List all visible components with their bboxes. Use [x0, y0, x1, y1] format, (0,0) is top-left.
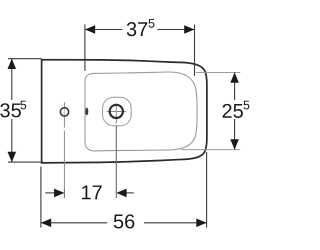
dim 35.5 label	[0, 103, 21, 117]
bidet outer outline	[42, 60, 207, 163]
dim 35.5 arrow up	[8, 59, 17, 69]
overflow slot	[85, 108, 88, 116]
dim 56 extension line left	[40, 167, 42, 228]
dim 56 arrow right	[196, 219, 206, 228]
dim 56 label	[114, 214, 135, 228]
dim 56 arrow left	[41, 219, 51, 228]
dim 56 extension line right	[206, 152, 208, 228]
dim 35.5 arrow down	[8, 152, 17, 162]
dim 25.5 arrow down	[230, 139, 239, 149]
drain hole	[110, 105, 123, 118]
dim 37.5 label	[127, 22, 147, 36]
dim 25.5 extension line bottom	[182, 149, 241, 151]
dim 37.5 arrow right	[184, 25, 194, 34]
dim 17 line with outside arrows	[45, 192, 134, 194]
tap hole	[60, 108, 68, 116]
drain centerline	[115, 126, 117, 198]
dim 35.5 line	[11, 59, 13, 162]
dim 17 arrow left	[54, 189, 64, 198]
dim 25.5 line	[234, 73, 236, 150]
dim 25.5 extension line top	[196, 72, 240, 74]
dim 35.5 extension line bottom	[8, 161, 42, 163]
dim 37.5 arrow left	[85, 25, 95, 34]
tap hole centerline	[63, 102, 65, 189]
dim 37.5 line	[85, 29, 195, 31]
dim 35.5 extension line top	[8, 58, 42, 60]
dim 17 label	[82, 185, 102, 199]
dim 37.5 extension line left	[84, 25, 86, 72]
drain trim plate	[103, 97, 132, 126]
dim 25.5 arrow up	[230, 73, 239, 83]
tap centerline extension below	[63, 189, 65, 198]
bidet inner bowl rim	[85, 72, 197, 151]
dim 37.5 extension line right	[194, 25, 196, 77]
dim 25.5 label	[223, 104, 243, 118]
dim 56 line	[41, 222, 207, 224]
drain crosshair	[107, 103, 126, 123]
dim 17 arrow right	[116, 189, 126, 198]
